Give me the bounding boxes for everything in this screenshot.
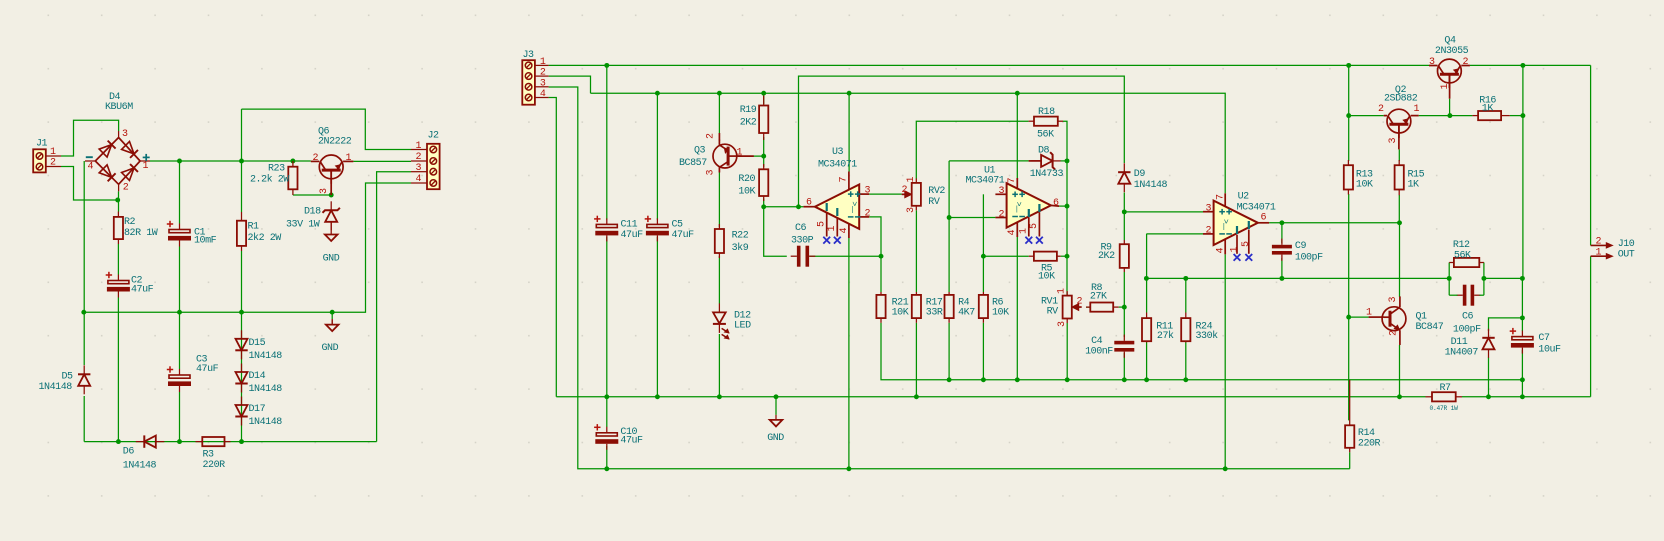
svg-text:220R: 220R: [203, 460, 226, 471]
svg-text:R12: R12: [1453, 240, 1470, 251]
svg-text:D18: D18: [304, 207, 321, 218]
svg-text:4K7: 4K7: [958, 308, 975, 319]
svg-text:2: 2: [902, 185, 908, 196]
svg-text:3: 3: [706, 170, 717, 176]
svg-text:2.2k 2W: 2.2k 2W: [250, 174, 289, 186]
svg-text:2: 2: [50, 158, 56, 169]
svg-text:7: 7: [1007, 178, 1018, 184]
svg-text:4: 4: [416, 174, 422, 185]
svg-text:R23: R23: [268, 164, 285, 175]
svg-text:GND: GND: [767, 433, 784, 444]
svg-text:R19: R19: [740, 105, 757, 116]
svg-text:MC34071: MC34071: [818, 160, 857, 171]
svg-text:2K2: 2K2: [740, 118, 757, 129]
svg-text:56K: 56K: [1037, 130, 1054, 141]
svg-text:4: 4: [1007, 230, 1018, 236]
svg-text:C5: C5: [672, 220, 684, 231]
svg-text:RV: RV: [928, 197, 940, 208]
svg-text:100nF: 100nF: [1085, 347, 1113, 358]
svg-text:C4: C4: [1091, 336, 1103, 347]
svg-text:R3: R3: [203, 450, 215, 461]
svg-text:U3: U3: [832, 147, 844, 158]
svg-text:RV: RV: [1047, 307, 1059, 318]
svg-text:100pF: 100pF: [1453, 325, 1481, 336]
svg-text:1: 1: [346, 153, 352, 164]
svg-text:2: 2: [1463, 57, 1469, 68]
svg-text:2: 2: [1206, 226, 1212, 237]
svg-text:|: |: [850, 206, 854, 214]
svg-text:OUT: OUT: [1618, 250, 1635, 261]
svg-text:1N4148: 1N4148: [39, 382, 73, 393]
svg-text:R14: R14: [1358, 428, 1375, 439]
svg-text:BC847: BC847: [1416, 322, 1444, 333]
svg-text:3: 3: [319, 188, 330, 194]
svg-text:|: |: [1015, 206, 1019, 214]
svg-text:3: 3: [122, 129, 128, 140]
svg-text:10mF: 10mF: [194, 236, 217, 247]
svg-text:Q1: Q1: [1416, 312, 1428, 323]
svg-text:10uF: 10uF: [1538, 345, 1561, 356]
svg-text:1N4148: 1N4148: [249, 351, 283, 362]
svg-text:3k9: 3k9: [732, 242, 749, 254]
svg-text:4: 4: [540, 89, 546, 100]
svg-text:D8: D8: [1038, 146, 1050, 157]
svg-text:R18: R18: [1038, 107, 1055, 118]
svg-text:D15: D15: [249, 338, 266, 349]
svg-text:R7: R7: [1440, 383, 1452, 394]
svg-text:GND: GND: [323, 254, 340, 265]
svg-text:82R 1W: 82R 1W: [124, 228, 158, 239]
svg-text:1N4148: 1N4148: [249, 417, 283, 428]
svg-text:J2: J2: [428, 131, 440, 142]
svg-text:47uF: 47uF: [131, 285, 154, 296]
svg-text:1N4148: 1N4148: [249, 384, 283, 395]
svg-text:2: 2: [123, 183, 129, 194]
svg-text:1: 1: [540, 57, 546, 68]
svg-text:1: 1: [1596, 248, 1602, 259]
svg-text:220R: 220R: [1358, 439, 1381, 450]
svg-text:33V 1W: 33V 1W: [286, 220, 320, 231]
svg-text:3: 3: [999, 186, 1005, 197]
svg-text:D9: D9: [1134, 169, 1146, 180]
svg-text:R22: R22: [732, 231, 749, 242]
svg-text:2SD882: 2SD882: [1384, 94, 1418, 105]
svg-text:C9: C9: [1295, 241, 1307, 252]
svg-text:2: 2: [1378, 104, 1384, 115]
svg-text:10K: 10K: [892, 308, 909, 319]
svg-text:5: 5: [816, 221, 827, 227]
svg-text:1: 1: [416, 141, 422, 152]
svg-text:4: 4: [88, 162, 94, 173]
svg-text:MC34071: MC34071: [966, 176, 1005, 187]
svg-text:1: 1: [1019, 228, 1030, 234]
svg-text:3: 3: [865, 186, 871, 197]
svg-text:2K2: 2K2: [1098, 251, 1115, 262]
svg-text:C7: C7: [1538, 333, 1550, 344]
svg-text:10K: 10K: [738, 187, 755, 198]
svg-text:1: 1: [1057, 288, 1068, 294]
svg-text:C11: C11: [621, 220, 638, 231]
svg-text:330P: 330P: [791, 236, 814, 247]
svg-text:3: 3: [1388, 297, 1399, 303]
svg-text:3: 3: [1057, 321, 1068, 327]
svg-text:1K: 1K: [1408, 180, 1420, 191]
svg-text:2: 2: [865, 209, 871, 220]
svg-text:LED: LED: [734, 321, 751, 332]
svg-text:2: 2: [1596, 237, 1602, 248]
svg-text:33R: 33R: [926, 308, 943, 319]
svg-text:1: 1: [143, 161, 149, 172]
svg-text:3: 3: [906, 207, 917, 213]
svg-text:1: 1: [1230, 247, 1241, 253]
svg-text:47uF: 47uF: [621, 230, 644, 241]
svg-text:1: 1: [50, 147, 56, 158]
svg-text:R20: R20: [738, 174, 755, 185]
svg-text:27K: 27K: [1090, 292, 1107, 303]
svg-text:5: 5: [1029, 223, 1040, 229]
svg-text:2: 2: [313, 153, 319, 164]
svg-text:1: 1: [1366, 308, 1372, 319]
svg-text:1: 1: [1414, 104, 1420, 115]
svg-text:2N2222: 2N2222: [318, 137, 352, 148]
svg-text:1N4148: 1N4148: [123, 461, 157, 472]
svg-text:D17: D17: [249, 404, 266, 415]
svg-text:1: 1: [1440, 84, 1451, 90]
svg-text:2k2 2W: 2k2 2W: [248, 232, 282, 244]
svg-text:BC857: BC857: [679, 158, 707, 169]
svg-text:1N4007: 1N4007: [1445, 348, 1479, 359]
svg-text:J3: J3: [523, 50, 535, 61]
svg-text:2: 2: [540, 68, 546, 79]
svg-text:2N3055: 2N3055: [1435, 46, 1469, 57]
svg-text:3: 3: [1429, 57, 1435, 68]
svg-text:GND: GND: [322, 343, 339, 354]
svg-text:7: 7: [839, 177, 850, 183]
svg-text:RV2: RV2: [928, 186, 945, 197]
svg-text:1: 1: [827, 226, 838, 232]
svg-text:C6: C6: [795, 223, 807, 234]
svg-text:3: 3: [1388, 138, 1399, 144]
svg-text:47uF: 47uF: [620, 436, 643, 447]
svg-text:1N4733: 1N4733: [1030, 169, 1064, 180]
svg-text:D14: D14: [249, 371, 266, 382]
svg-text:6: 6: [806, 198, 812, 209]
svg-text:1K: 1K: [1482, 104, 1494, 115]
svg-text:3: 3: [416, 163, 422, 174]
svg-text:Q4: Q4: [1444, 36, 1456, 47]
svg-text:R2: R2: [124, 217, 136, 228]
svg-text:3: 3: [1206, 204, 1212, 215]
svg-text:2: 2: [416, 152, 422, 163]
svg-text:5: 5: [1241, 241, 1252, 247]
svg-text:J1: J1: [36, 139, 48, 150]
svg-text:C6: C6: [1462, 312, 1474, 323]
svg-text:U2: U2: [1238, 192, 1250, 203]
svg-text:D6: D6: [123, 447, 135, 458]
svg-text:Q3: Q3: [694, 146, 706, 157]
svg-text:56K: 56K: [1454, 251, 1471, 262]
svg-text:4: 4: [1216, 248, 1227, 254]
svg-text:2: 2: [1389, 330, 1400, 336]
svg-text:2: 2: [706, 133, 717, 139]
svg-text:100pF: 100pF: [1295, 253, 1323, 264]
svg-text:10K: 10K: [992, 308, 1009, 319]
svg-text:47uF: 47uF: [672, 230, 695, 241]
svg-text:2: 2: [999, 210, 1005, 221]
svg-text:10K: 10K: [1038, 272, 1055, 283]
svg-text:R1: R1: [248, 222, 260, 233]
svg-text:47uF: 47uF: [196, 364, 219, 375]
svg-text:4: 4: [839, 228, 850, 234]
svg-text:0.47R 1W: 0.47R 1W: [1430, 405, 1459, 412]
svg-text:7: 7: [1215, 194, 1226, 200]
svg-text:3: 3: [540, 78, 546, 89]
svg-text:6: 6: [1053, 198, 1059, 209]
svg-text:MC34071: MC34071: [1237, 203, 1276, 214]
svg-text:27k: 27k: [1157, 330, 1174, 342]
svg-text:2: 2: [1077, 297, 1083, 308]
svg-text:10K: 10K: [1356, 180, 1373, 191]
svg-text:1: 1: [737, 148, 743, 159]
svg-text:1N4148: 1N4148: [1134, 180, 1168, 191]
svg-text:1: 1: [906, 177, 917, 183]
svg-text:D5: D5: [62, 372, 74, 383]
svg-text:D11: D11: [1451, 337, 1468, 348]
svg-text:330k: 330k: [1196, 330, 1219, 342]
svg-text:6: 6: [1261, 213, 1267, 224]
svg-text:J10: J10: [1618, 239, 1635, 250]
svg-text:KBU6M: KBU6M: [105, 102, 133, 113]
svg-text:|: |: [1222, 223, 1226, 231]
